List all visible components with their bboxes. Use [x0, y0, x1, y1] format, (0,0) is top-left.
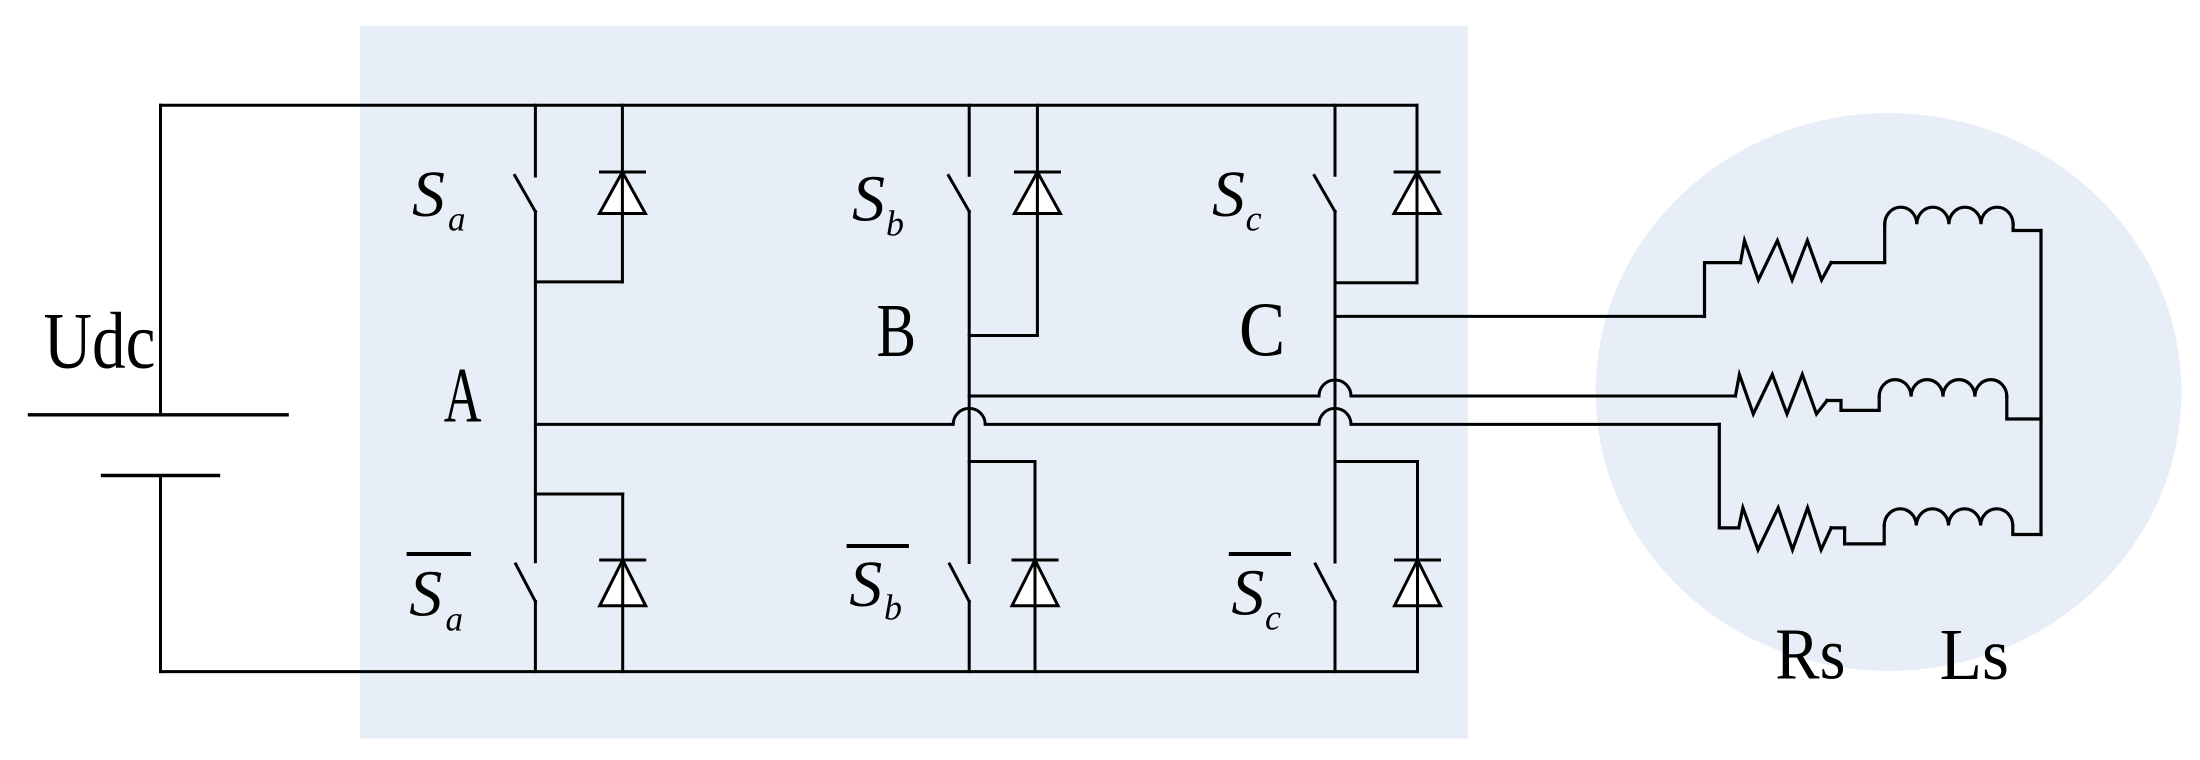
inductor Ls (phase A branch): [1884, 509, 2013, 526]
diode D3 (Sb antiparallel): [1014, 105, 1061, 335]
wire: DC source negative lead: [159, 477, 162, 672]
wire hop: phase B line over phase C leg: [1319, 380, 1351, 396]
wire: phase B leg center: [968, 212, 971, 563]
switch ScBar blade: [1315, 564, 1335, 602]
inductor Ls (phase C branch): [1885, 207, 2013, 224]
wire: phase B leg lower stub to negative bus: [968, 602, 971, 672]
diode D2 (ScBar antiparallel): [1394, 462, 1441, 672]
svg-text:A: A: [444, 353, 482, 439]
svg-text:S: S: [409, 557, 442, 630]
diode D4 (SaBar antiparallel): [599, 494, 646, 672]
wire: SaBar switch-diode junction connector: [535, 493, 622, 496]
switch Sa blade: [515, 175, 536, 211]
wire: Sa switch-diode junction connector: [535, 280, 622, 283]
wire: phase B branch to right bus: [2007, 397, 2041, 419]
wire: phase A branch to right bus: [2013, 525, 2041, 534]
wire: phase A output line segment 3: [1351, 423, 1719, 426]
wire: phase A leg center (switch Sa bottom to switch SaBar top): [534, 212, 537, 562]
label Sc: [1212, 158, 1262, 239]
svg-text:S: S: [852, 162, 885, 235]
resistor Rs (phase B branch): [1735, 375, 1827, 415]
svg-text:b: b: [884, 588, 902, 628]
wire: phase B branch resistor-to-inductor link: [1827, 397, 1879, 411]
svg-text:C: C: [1239, 287, 1285, 372]
wire: ScBar switch-diode junction connector: [1335, 460, 1418, 463]
motor load background ellipse: [1596, 113, 2182, 671]
wire: phase A branch resistor-to-inductor link: [1831, 525, 1884, 544]
wire: phase A leg lower stub to negative bus: [534, 602, 537, 672]
wire: phase C leg lower stub to negative bus: [1334, 602, 1337, 672]
wire: phase A branch lead-in drop: [1719, 424, 1738, 528]
switch Sb blade: [949, 176, 970, 212]
label SaBar: [407, 552, 471, 639]
switch SbBar blade: [950, 564, 970, 602]
wire: phase C branch resistor-to-inductor link: [1831, 224, 1885, 262]
wire: negative DC bus (bottom rail): [161, 670, 1418, 673]
svg-text:S: S: [1212, 158, 1245, 231]
switch SaBar blade: [516, 564, 536, 602]
inverter block background rectangle: [360, 26, 1468, 739]
wire: Sc switch-diode junction connector: [1335, 281, 1417, 284]
label ScBar: [1229, 552, 1291, 638]
svg-text:Ls: Ls: [1940, 615, 2009, 695]
wire: phase B leg upper stub from positive bus: [968, 105, 971, 175]
battery Udc negative plate: [101, 474, 220, 477]
label Sb: [852, 162, 904, 243]
wire: phase C branch to right bus: [2013, 224, 2041, 230]
svg-text:S: S: [1231, 557, 1264, 630]
svg-text:a: a: [446, 600, 464, 639]
battery Udc positive plate: [28, 413, 289, 416]
wire: phase A output line segment 2: [985, 423, 1319, 426]
wire: phase B output line segment 2: [1351, 395, 1735, 398]
svg-text:c: c: [1265, 598, 1281, 638]
svg-text:S: S: [412, 158, 445, 231]
svg-text:c: c: [1246, 198, 1262, 238]
wire: phase C branch lead-in riser: [1705, 263, 1741, 317]
resistor Rs (phase A branch): [1739, 508, 1832, 550]
diode D6 (SbBar antiparallel): [1012, 462, 1059, 672]
wire: phase B output line segment 1: [969, 395, 1319, 398]
wire: phase A leg upper stub from positive bus: [534, 105, 537, 176]
wire: positive DC bus (top rail): [161, 104, 1418, 107]
svg-text:Udc: Udc: [44, 296, 156, 385]
switch Sc blade: [1314, 176, 1335, 212]
resistor Rs (phase C branch): [1741, 241, 1832, 280]
wire: load neutral right bus: [2039, 231, 2042, 535]
diode D1 (Sa antiparallel): [599, 105, 646, 282]
diode D5 (Sc antiparallel): [1394, 105, 1441, 282]
wire: phase A output line segment 1: [535, 423, 953, 426]
svg-text:B: B: [877, 288, 917, 373]
svg-text:a: a: [448, 199, 466, 238]
wire: phase C leg center: [1334, 212, 1337, 563]
inductor Ls (phase B branch): [1879, 380, 2007, 397]
wire: Sb switch-diode junction connector: [969, 334, 1037, 337]
wire: DC source positive lead: [159, 105, 162, 413]
label SbBar: [847, 544, 909, 628]
svg-text:Rs: Rs: [1775, 614, 1845, 695]
wire hop: phase A line over phase C leg: [1319, 408, 1351, 424]
wire: phase C output line: [1335, 315, 1705, 318]
label Sa: [412, 158, 466, 239]
svg-text:S: S: [849, 548, 882, 621]
wire: phase C leg upper stub from positive bus: [1334, 105, 1337, 175]
wire hop: phase A line over phase B leg: [953, 408, 985, 424]
wire: SbBar switch-diode junction connector: [969, 460, 1035, 463]
svg-text:b: b: [886, 204, 904, 244]
